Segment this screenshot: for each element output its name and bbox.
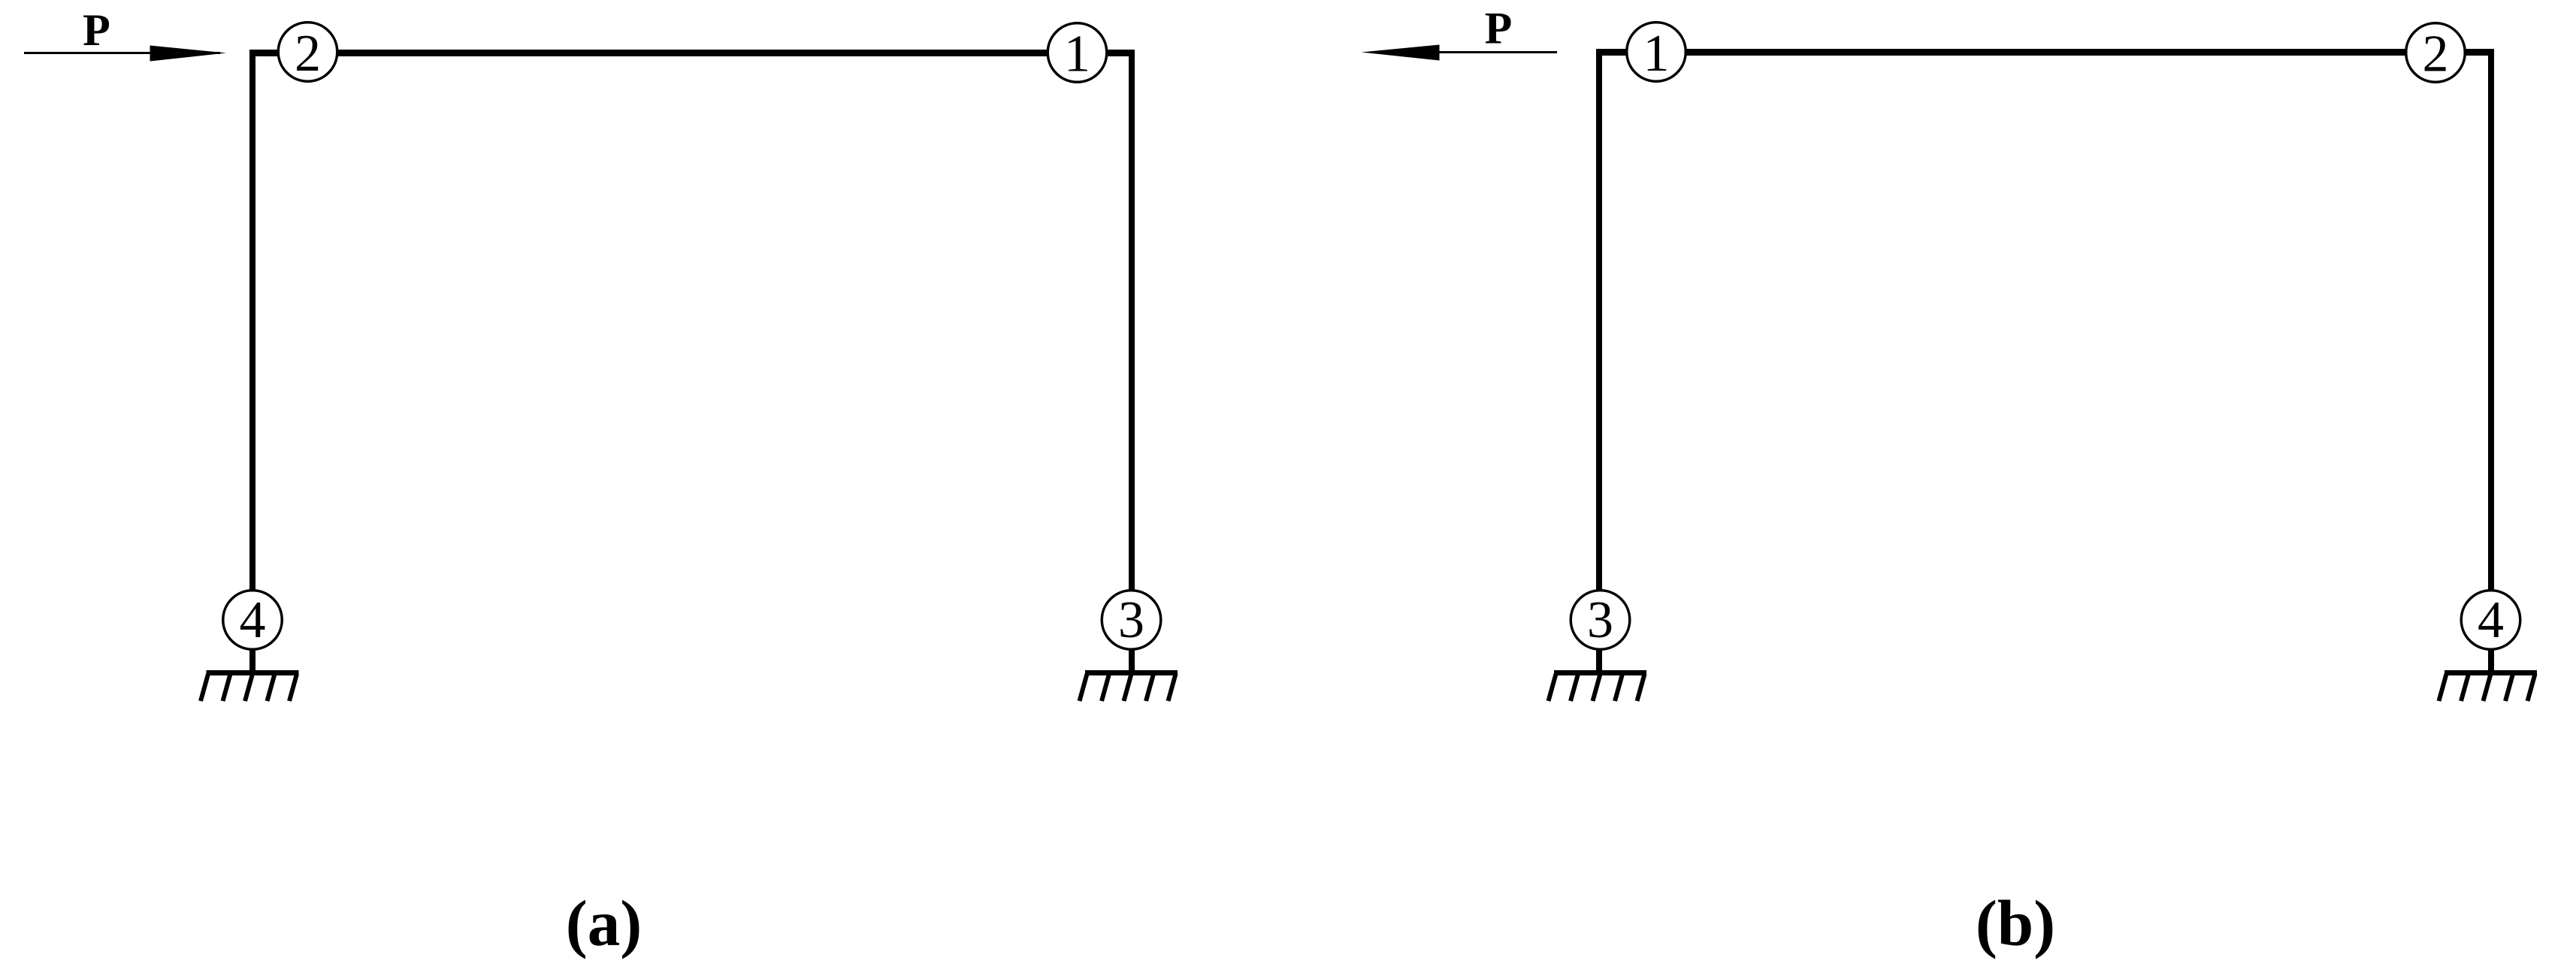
node 2 (frame b) bbox=[2406, 23, 2466, 83]
load arrow P (frame b) bbox=[1362, 45, 1558, 61]
svg-text:4: 4 bbox=[2478, 591, 2504, 649]
fixed support under node 4 (frame a) bbox=[201, 670, 299, 701]
left column member 1-3 (frame b) bbox=[1596, 49, 1602, 675]
svg-text:4: 4 bbox=[240, 591, 266, 649]
svg-text:1: 1 bbox=[1643, 25, 1670, 83]
svg-text:2: 2 bbox=[2423, 26, 2449, 83]
node 4 (frame a) bbox=[223, 591, 283, 650]
svg-text:3: 3 bbox=[1587, 591, 1613, 649]
svg-text:P: P bbox=[1485, 4, 1513, 53]
beam member 1-2 (frame b) bbox=[1596, 49, 2494, 56]
fixed support under node 3 (frame a) bbox=[1080, 670, 1178, 701]
node 1 (frame b) bbox=[1627, 23, 1686, 83]
node 3 (frame b) bbox=[1571, 591, 1630, 650]
node 2 (frame a) bbox=[278, 23, 337, 83]
node 3 (frame a) bbox=[1102, 591, 1161, 650]
svg-text:P: P bbox=[83, 5, 110, 55]
node 1 (frame a) bbox=[1048, 23, 1107, 83]
node 4 (frame b) bbox=[2461, 591, 2520, 650]
left column member 2-4 (frame a) bbox=[249, 50, 255, 675]
svg-text:3: 3 bbox=[1118, 591, 1144, 649]
svg-text:(b): (b) bbox=[1976, 887, 2055, 959]
beam member 2-1 (frame a) bbox=[249, 50, 1135, 56]
fixed support under node 3 (frame b) bbox=[1549, 670, 1647, 701]
svg-text:1: 1 bbox=[1064, 26, 1090, 83]
right column member 2-4 (frame b) bbox=[2488, 49, 2494, 675]
svg-text:2: 2 bbox=[295, 25, 321, 83]
load arrow P (frame a) bbox=[24, 46, 226, 62]
fixed support under node 4 (frame b) bbox=[2439, 670, 2538, 701]
svg-text:(a): (a) bbox=[566, 887, 642, 959]
right column member 1-3 (frame a) bbox=[1129, 50, 1135, 675]
